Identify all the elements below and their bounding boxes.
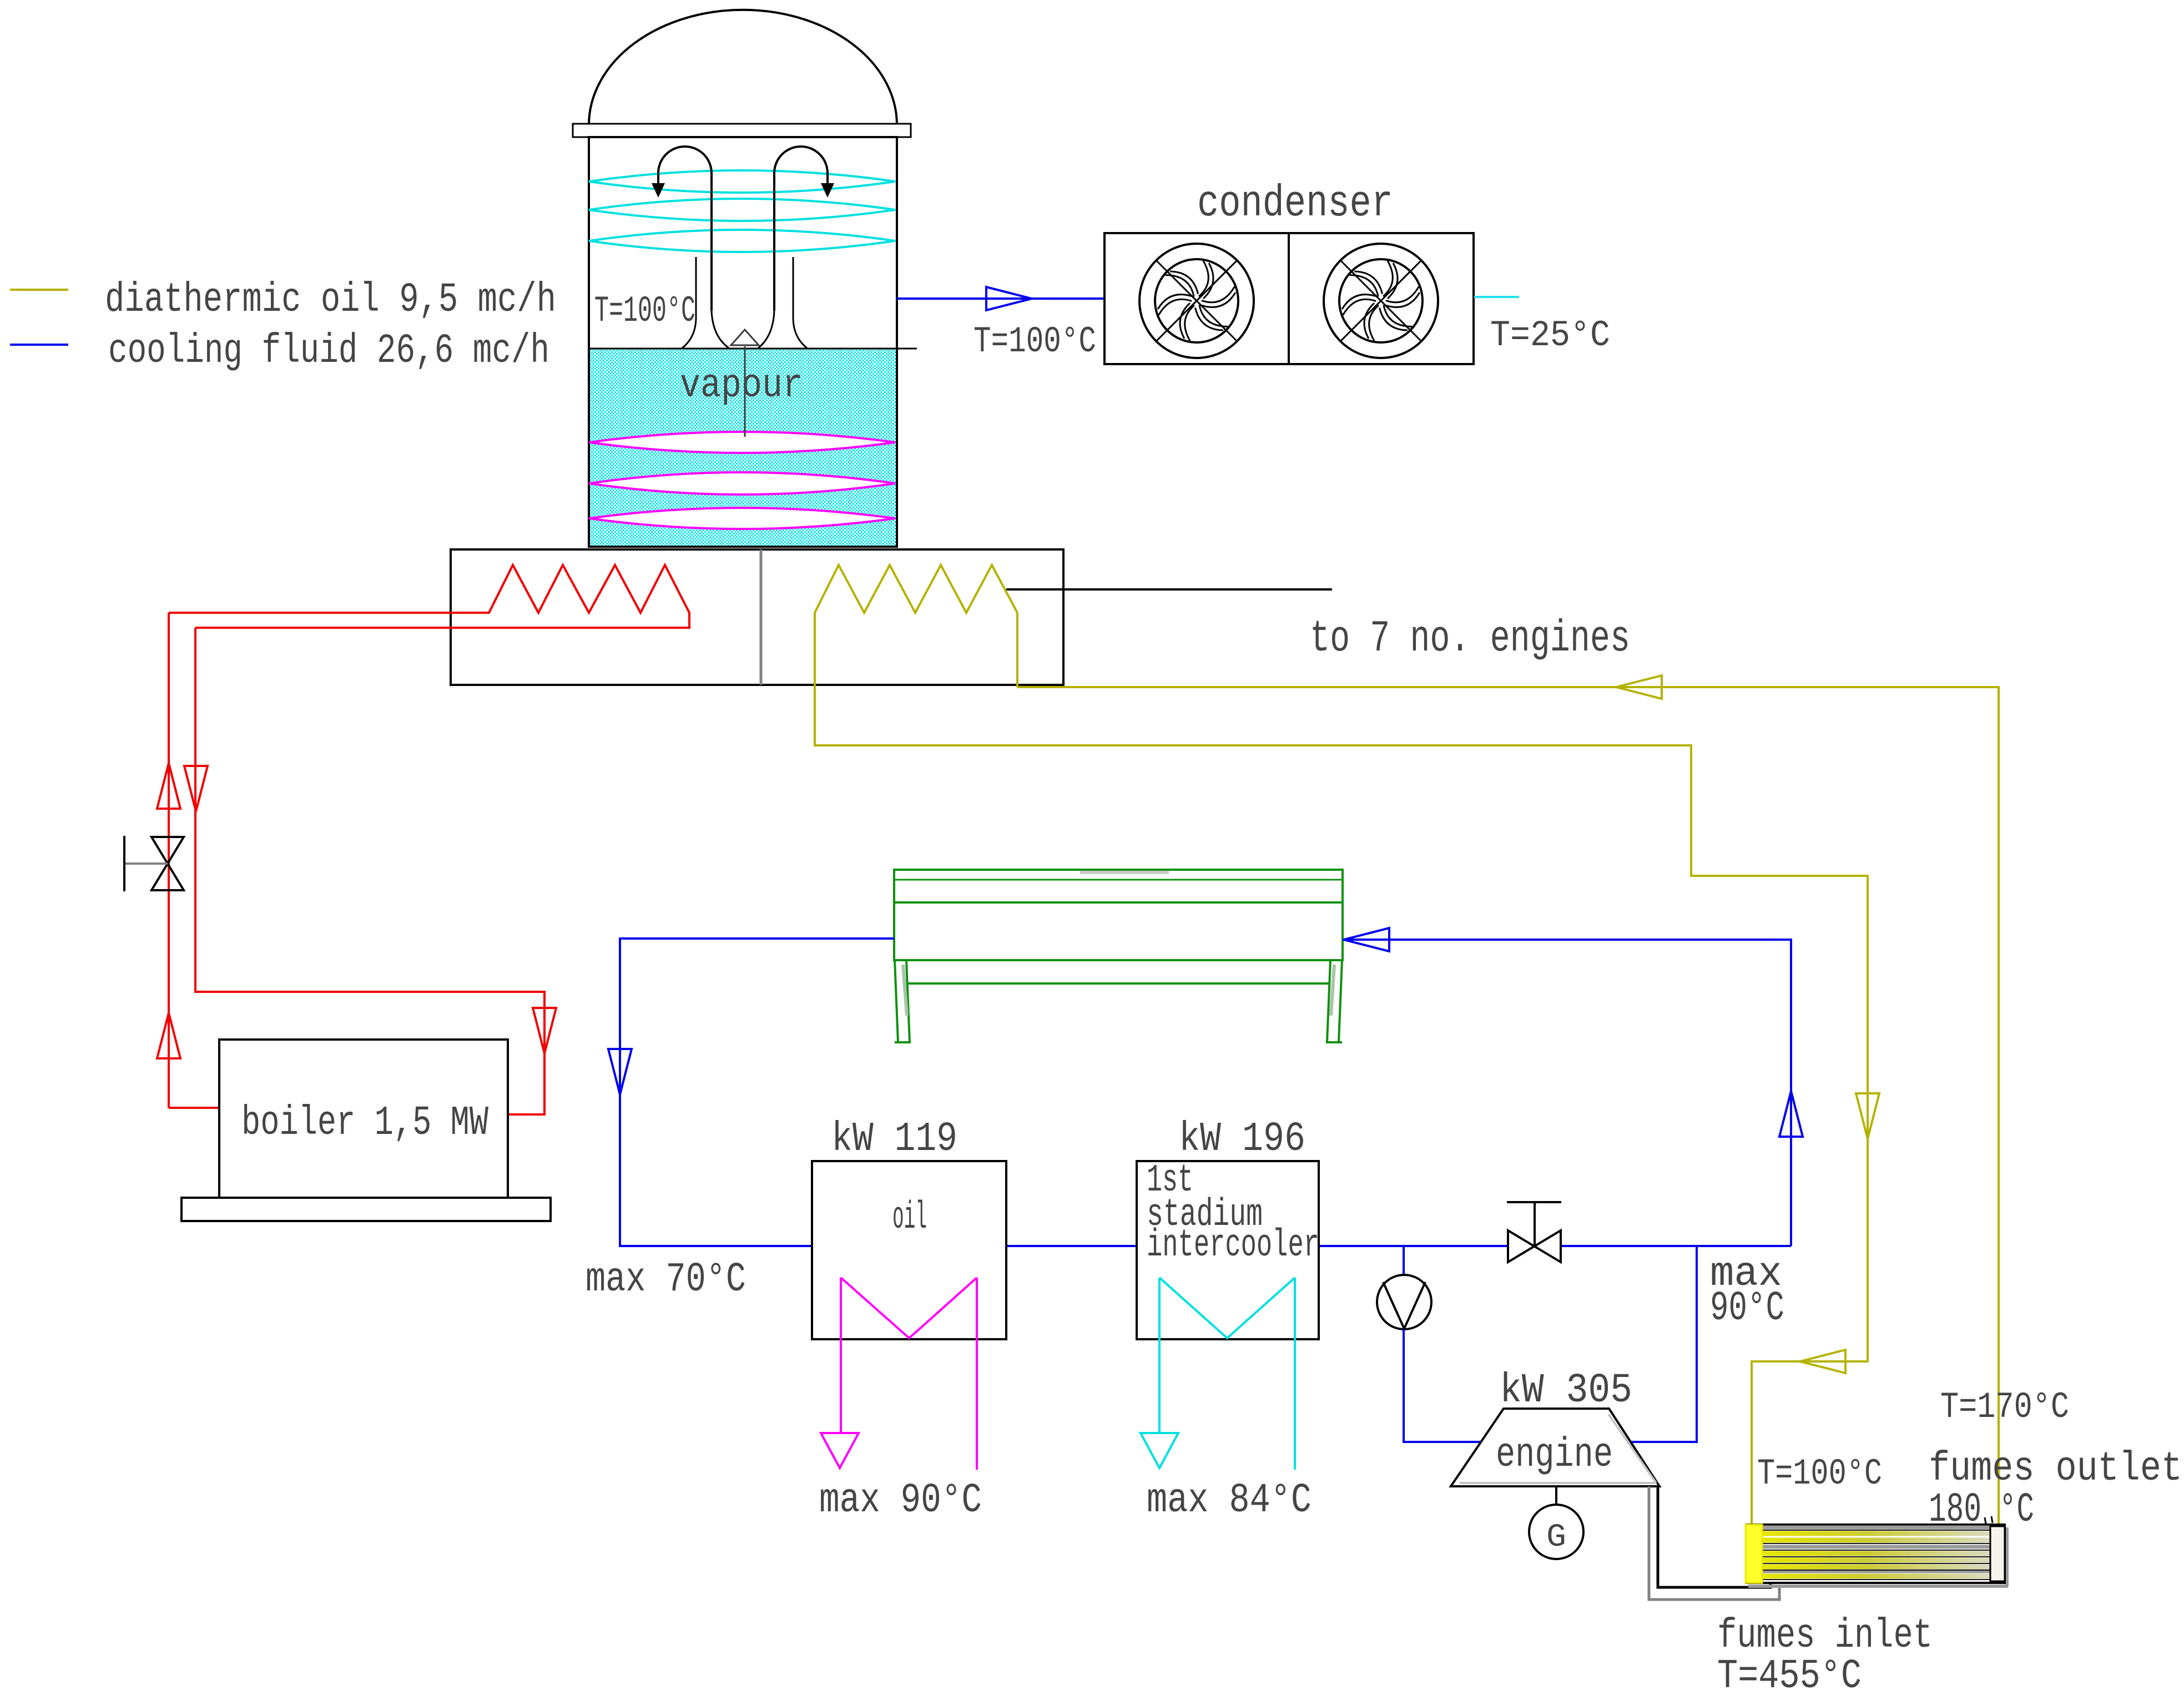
boiler supply arrow 1 (157, 763, 180, 809)
boiler water coil (red zigzag) (169, 565, 689, 628)
heating coil turn 1 (589, 432, 895, 453)
legend diathermic oil line (10, 289, 68, 291)
boiler return arrow 1 (184, 766, 208, 811)
oil supply pipe (to fumes exchanger) (815, 613, 1868, 1525)
condenser fan 1 (1139, 244, 1254, 358)
pipe between exchangers (1006, 1245, 1137, 1247)
heater box divider (760, 549, 763, 685)
svg-text:kW 196: kW 196 (1179, 1116, 1305, 1163)
valve on cooling line (1508, 1230, 1561, 1262)
oil cooler box (812, 1161, 1006, 1339)
svg-text:max 84°C: max 84°C (1147, 1477, 1312, 1524)
dissipator right leg (1339, 960, 1342, 1042)
dissipator inner line 1 (894, 879, 1343, 881)
riser inner wall left (712, 311, 729, 348)
svg-text:fumes outlet: fumes outlet (1929, 1446, 2182, 1492)
dissipator left leg (895, 960, 898, 1042)
svg-text:90°C: 90°C (1710, 1285, 1784, 1332)
oil cooler tail left (840, 1278, 842, 1433)
pipe valve to riser (1561, 1245, 1791, 1247)
svg-text:T=100°C: T=100°C (1757, 1453, 1882, 1495)
evaporator flange (573, 124, 911, 137)
svg-text:T=100°C: T=100°C (594, 290, 695, 332)
flow arrow to condenser (986, 287, 1032, 310)
cooling arrow into dissipator (1344, 928, 1389, 951)
svg-text:condenser: condenser (1197, 179, 1393, 229)
fumes duct outer (1649, 1486, 1779, 1600)
oil cooler V (magenta) (841, 1278, 977, 1338)
riser inner wall right (758, 311, 774, 348)
svg-text:to 7 no. engines: to 7 no. engines (1310, 614, 1630, 664)
engine outlet pipe (1631, 1246, 1697, 1442)
svg-text:T=25°C: T=25°C (1490, 315, 1610, 356)
evaporator body (589, 137, 897, 547)
intercooler tail left (1158, 1278, 1161, 1433)
boiler base (181, 1198, 551, 1221)
right cap tick (1985, 1517, 1986, 1524)
svg-text:fumes inlet: fumes inlet (1717, 1613, 1933, 1659)
diathermic oil coil (olive zigzag) (815, 565, 1017, 687)
boiler box (219, 1040, 508, 1198)
svg-text:180 °C: 180 °C (1929, 1487, 2034, 1533)
boiler supply riser (168, 613, 170, 1108)
pump branch upper (1403, 1246, 1405, 1275)
riser outer wall right (793, 257, 808, 349)
svg-text:G: G (1546, 1520, 1566, 1556)
intercooler V (cyan) (1159, 1278, 1295, 1338)
cooling arrow up (1779, 1091, 1803, 1137)
svg-text:cooling fluid 26,6 mc/h: cooling fluid 26,6 mc/h (108, 328, 549, 375)
svg-text:intercooler: intercooler (1147, 1224, 1319, 1268)
exchanger left cap (yellow) (1746, 1525, 1762, 1583)
condenser outlet line (1474, 296, 1519, 298)
svg-text:engine: engine (1496, 1432, 1613, 1479)
cooling arrow down (608, 1049, 632, 1094)
intercooler arrowhead (1141, 1433, 1178, 1468)
legend cooling fluid line (10, 344, 68, 346)
heater box (451, 549, 1063, 685)
pipe vessel to condenser (cooling fluid) (897, 297, 1103, 300)
intercooler box (1137, 1161, 1319, 1339)
boiler inlet stub (169, 1107, 219, 1109)
boiler return arrow 2 (533, 1008, 556, 1053)
exchanger shadow (1748, 1585, 2008, 1588)
fumes exchanger body (1747, 1525, 2005, 1583)
condenser box (1104, 233, 1474, 364)
dissipator inner line 2 (894, 901, 1343, 904)
svg-text:boiler 1,5 MW: boiler 1,5 MW (241, 1100, 488, 1147)
vapour arrow (744, 346, 746, 437)
boiler return drop (195, 628, 544, 1114)
condensing coil turn 1 (589, 170, 895, 193)
pipe riser to dissipator (1343, 940, 1791, 1246)
generator circle (1529, 1505, 1583, 1559)
svg-text:T=455°C: T=455°C (1717, 1653, 1862, 1690)
svg-text:kW 119: kW 119 (831, 1116, 957, 1163)
condensing coil turn 3 (589, 230, 895, 252)
liquid (water) fill (590, 349, 896, 546)
svg-text:max 70°C: max 70°C (586, 1257, 746, 1303)
dissipator crossbar (906, 982, 1330, 985)
dissipator body (894, 870, 1343, 960)
oil cooler tail right (976, 1278, 978, 1470)
riser outer wall left (682, 257, 696, 349)
oil supply arrow down (1856, 1093, 1879, 1139)
generator link (1555, 1486, 1557, 1505)
engine body (1451, 1409, 1660, 1486)
liquid surface line (589, 348, 917, 350)
oil return arrow (1616, 675, 1662, 699)
heating coil turn 2 (589, 472, 895, 495)
svg-text:T=100°C: T=100°C (974, 321, 1096, 362)
dissipator top highlight (1080, 871, 1169, 874)
condenser fan 2 (1324, 244, 1438, 358)
valve on boiler line (152, 837, 184, 890)
fumes duct inner (1658, 1486, 1771, 1587)
condenser cell divider (1288, 233, 1290, 364)
pump to engine (1404, 1329, 1481, 1442)
svg-text:oil: oil (892, 1196, 927, 1240)
line to engines (black) (1006, 588, 1332, 591)
condensing coil turn 2 (589, 199, 895, 221)
oil supply arrow left (1800, 1350, 1845, 1373)
pipe dissipator out (620, 939, 894, 1246)
svg-text:vapour: vapour (680, 363, 803, 408)
oil return pipe (from fumes exchanger) (1017, 687, 1999, 1525)
oil cooler arrowhead (821, 1433, 859, 1468)
intercooler tail right (1294, 1278, 1296, 1470)
svg-text:T=170°C: T=170°C (1940, 1386, 2069, 1428)
circulation arrow left (658, 147, 712, 311)
engine shading (1460, 1482, 1655, 1484)
svg-text:max 90°C: max 90°C (819, 1477, 982, 1524)
pump (1377, 1275, 1431, 1329)
svg-text:kW 305: kW 305 (1500, 1368, 1632, 1414)
exchanger right cap (1990, 1526, 2005, 1581)
circulation arrow right (774, 147, 828, 311)
svg-text:diathermic oil 9,5 mc/h: diathermic oil 9,5 mc/h (105, 277, 556, 324)
exchanger tubes (1763, 1531, 1990, 1536)
heating coil turn 3 (589, 508, 895, 529)
boiler supply arrow 2 (157, 1013, 180, 1058)
evaporator dome (589, 10, 897, 125)
pipe after intercooler (1319, 1245, 1508, 1247)
